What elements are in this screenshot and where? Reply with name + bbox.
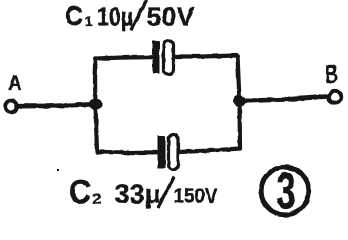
speck	[57, 169, 59, 171]
terminal A	[5, 101, 17, 113]
wire top left horizontal	[96, 57, 153, 58]
label C1 value text	[65, 1, 195, 32]
wire A to left junction	[18, 104, 93, 106]
wire right vertical	[238, 56, 241, 149]
junction left node	[89, 98, 102, 109]
svg-text:10µ: 10µ	[97, 2, 133, 32]
svg-text:2: 2	[93, 191, 102, 208]
terminal B	[329, 91, 341, 103]
svg-text:C: C	[69, 173, 91, 210]
svg-text:A: A	[8, 72, 22, 95]
wire top right horizontal	[175, 56, 238, 57]
svg-text:33µ: 33µ	[115, 179, 161, 209]
svg-text:50V: 50V	[147, 2, 196, 32]
wire bottom left horizontal	[97, 150, 158, 155]
capacitor C1	[153, 41, 174, 75]
junction right node	[233, 95, 246, 106]
wire left vertical down	[96, 104, 98, 152]
svg-text:B: B	[326, 59, 338, 89]
svg-text:3: 3	[277, 163, 296, 221]
svg-text:C: C	[65, 1, 83, 31]
wire left vertical up	[93, 59, 98, 105]
wire bottom right horizontal	[179, 149, 240, 153]
label C2 value text	[69, 173, 218, 210]
figure number 3 badge	[261, 163, 309, 221]
capacitor C2	[158, 135, 179, 170]
wire junction to B	[240, 96, 330, 101]
svg-text:150V: 150V	[174, 185, 218, 208]
svg-text:1: 1	[85, 13, 93, 29]
